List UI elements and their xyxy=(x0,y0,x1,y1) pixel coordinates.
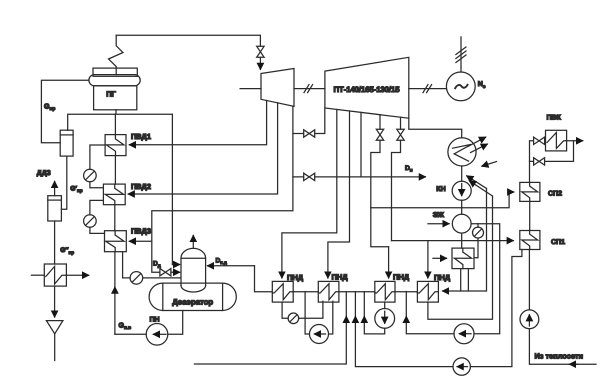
drain riser to y364 line xyxy=(194,292,346,364)
deaerator vent arrow xyxy=(192,236,194,249)
main steam line to turbine xyxy=(116,35,260,69)
expander1 to expander2 drain xyxy=(61,156,66,209)
ПВД drain cascade 2 xyxy=(84,200,105,233)
steam generator ПГ xyxy=(89,68,140,110)
svg-text:ПГ: ПГ xyxy=(106,89,116,98)
blowdown line Gпр xyxy=(41,80,89,143)
cooler water line xyxy=(31,274,88,276)
superheater break symbol xyxy=(109,35,124,74)
HP turbine cylinder xyxy=(261,69,294,107)
condensate drop line xyxy=(461,166,463,248)
ПВД3 drain to deaerator xyxy=(123,252,181,285)
svg-text:Gпр: Gпр xyxy=(44,104,55,113)
main steam valve xyxy=(257,46,264,57)
svg-text:Dд: Dд xyxy=(153,260,161,268)
deaerator tank xyxy=(149,283,236,310)
svg-text:Dп: Dп xyxy=(405,165,413,173)
svg-text:ПН: ПН xyxy=(150,316,160,323)
svg-text:ПТ-140/165-130/15: ПТ-140/165-130/15 xyxy=(334,85,401,94)
svg-text:ПВК: ПВК xyxy=(547,114,562,121)
peak boiler ПВК xyxy=(546,130,567,151)
steam to ПНД2 xyxy=(328,111,350,278)
shaft left of HP xyxy=(240,88,261,90)
ПНД2 drain pump loop xyxy=(305,292,333,344)
heater ПНД1 xyxy=(272,281,293,302)
СП2 to СП1 cascade xyxy=(529,201,531,230)
svg-text:ПВД3: ПВД3 xyxy=(131,226,151,235)
blowdown expander 1 xyxy=(60,130,73,156)
svg-text:Из теплосети: Из теплосети xyxy=(535,352,584,361)
extraction valve A under LP xyxy=(371,115,389,247)
heater СП1 xyxy=(520,231,540,250)
heater ПНД3 xyxy=(375,281,395,302)
cooling water outlet arrows xyxy=(468,137,488,152)
ejector ЭЖ xyxy=(452,214,471,233)
svg-text:ПНД: ПНД xyxy=(393,273,410,282)
svg-text:ПНД: ПНД xyxy=(287,273,304,282)
heater ПВД2 xyxy=(103,184,125,205)
svg-text:G′пр: G′пр xyxy=(70,186,82,194)
production steam line Dп with valve xyxy=(293,112,425,180)
drain valve at ejector xyxy=(473,224,484,258)
extraction valve B under LP xyxy=(392,117,405,240)
drain funnel xyxy=(46,321,63,361)
gland steam heater xyxy=(452,248,474,269)
crossover HP to LP with valve xyxy=(293,108,325,137)
feedwater line through ПВД string xyxy=(115,114,183,334)
vent to ДД3 xyxy=(54,182,56,196)
heater ПВД1 xyxy=(105,135,126,156)
drain returns into condensate line xyxy=(467,176,493,196)
СП1 drain pump loop xyxy=(355,250,522,376)
gland heater drains xyxy=(461,269,469,291)
heater ПНД2 xyxy=(318,281,339,302)
blowdown expander 2 xyxy=(48,196,62,221)
ПНД4 drain return line xyxy=(443,189,487,292)
boiler bottom header xyxy=(68,110,180,265)
ПВК outlet arrow xyxy=(567,140,583,142)
cooling water inlet arrow xyxy=(482,162,497,167)
steam to ПНД1 xyxy=(282,110,337,278)
network booster pump xyxy=(520,310,539,329)
СП2 to ПВК line with valve xyxy=(530,137,546,182)
svg-text:ПВД2: ПВД2 xyxy=(131,182,151,191)
generator shaft with hatches xyxy=(456,37,466,72)
svg-text:Gп.в: Gп.в xyxy=(119,322,132,331)
deaerator column xyxy=(181,248,206,292)
gland heater water arrow xyxy=(433,257,447,259)
svg-text:Деаэратор: Деаэратор xyxy=(172,298,213,307)
svg-text:ПНД: ПНД xyxy=(332,273,349,282)
ПВК bypass with valve xyxy=(530,141,574,165)
svg-text:G″пр: G″пр xyxy=(60,247,74,255)
LP turbine cylinder ПТ-140/165-130/15 xyxy=(325,57,409,118)
svg-text:СП1: СП1 xyxy=(551,239,565,246)
shaft HP-LP with break marks xyxy=(294,85,325,93)
condenser xyxy=(448,138,476,166)
steam line to СП1 xyxy=(392,240,514,242)
ПНД1 drain with valve xyxy=(282,301,323,323)
heater ПВД3 xyxy=(105,231,127,252)
svg-text:ПНД: ПНД xyxy=(434,273,451,282)
ПНД4 bottom drain xyxy=(428,196,493,319)
svg-text:КН: КН xyxy=(436,186,445,193)
heater ПНД4 xyxy=(417,281,438,302)
shaft LP-generator with break marks xyxy=(409,85,447,93)
blowdown drain cooler xyxy=(44,221,66,317)
extraction steam to ПВД3 and Dд line xyxy=(129,106,293,276)
ejector drain to drain pump xyxy=(406,224,499,334)
svg-text:ЭЖ: ЭЖ xyxy=(433,212,445,219)
svg-text:СП2: СП2 xyxy=(548,190,562,197)
exhaust to condenser xyxy=(409,118,462,138)
main condensate line between heaters xyxy=(293,291,417,293)
pump ПН xyxy=(146,324,168,346)
heater drain pump xyxy=(454,324,474,344)
ПВД drain cascade 1 xyxy=(84,145,106,188)
steam to ПНД3 xyxy=(388,247,390,278)
svg-text:ДД3: ДД3 xyxy=(37,170,51,177)
svg-text:Dк.д: Dк.д xyxy=(216,258,227,266)
ejector suction arrow xyxy=(428,223,449,225)
condensate pump КН xyxy=(452,181,471,200)
steam branch to СП2 xyxy=(371,192,514,208)
steam to ПНД4 xyxy=(427,241,429,278)
svg-text:ПВД1: ПВД1 xyxy=(131,132,151,141)
network water from heat grid xyxy=(529,250,596,365)
heater СП2 xyxy=(520,182,540,201)
generator xyxy=(446,72,475,101)
condensate to deaerator Dк.д xyxy=(208,266,273,292)
extraction steam to ПВД1 xyxy=(129,101,266,145)
svg-text:Nэ: Nэ xyxy=(478,81,486,90)
ПНД3 drain pump loop xyxy=(364,292,394,334)
extraction steam to ПВД2 xyxy=(128,103,277,194)
